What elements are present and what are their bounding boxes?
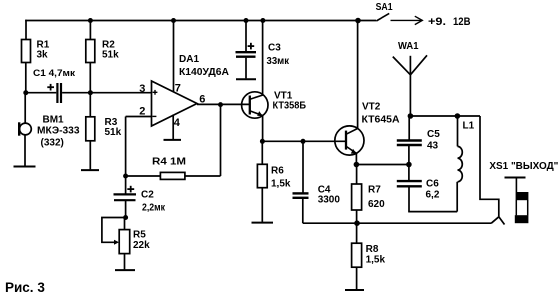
node input left junction (23, 90, 28, 95)
capacitor C4 3300 (293, 141, 341, 223)
wire output to VT1 base (197, 103, 250, 105)
resistor R8 (352, 223, 386, 267)
ground below R6 (252, 222, 274, 224)
wire feedback to output node (220, 104, 222, 176)
resistor R4 1M (126, 157, 221, 180)
svg-text:К140УД6А: К140УД6А (179, 67, 229, 78)
svg-text:Рис. 3: Рис. 3 (5, 280, 45, 294)
transistor VT1 КТ358Б (242, 91, 306, 119)
svg-text:(332): (332) (41, 138, 64, 149)
svg-text:3: 3 (139, 83, 145, 95)
node C4 top junction (301, 139, 306, 144)
node C2 bottom junction (123, 215, 128, 220)
capacitor C1 (26, 68, 91, 103)
node noninverting input junction (88, 90, 93, 95)
wire node to microphone (24, 93, 26, 124)
ground pin 4 (164, 139, 182, 141)
svg-text:4: 4 (174, 117, 181, 129)
wire VT2 collector to rail (357, 21, 359, 129)
svg-text:SA1: SA1 (376, 1, 393, 13)
node rail R2 junction (88, 18, 93, 23)
wire bottom rail (303, 222, 492, 224)
microphone BM1 (19, 114, 80, 148)
svg-text:C3: C3 (268, 43, 281, 54)
svg-text:1,5k: 1,5k (366, 255, 386, 266)
wire left column from rail to R1 (25, 20, 27, 40)
wire supply arrow (391, 16, 471, 28)
connector XS1 ВЫХОД (489, 160, 558, 223)
wire R2 bottom to input node (89, 63, 91, 93)
node output junction (218, 102, 223, 107)
node C5 C6 emitter junction (406, 162, 412, 168)
antenna WA1 (393, 40, 427, 75)
svg-text:620: 620 (368, 199, 385, 210)
svg-text:МКЭ-333: МКЭ-333 (37, 126, 80, 137)
wire R3 to ground (89, 141, 91, 170)
node rail pin7 junction (171, 18, 176, 23)
wire antenna down (409, 75, 411, 116)
svg-text:C6: C6 (426, 179, 439, 190)
ground below R5 (115, 269, 135, 271)
wire R7 to bottom rail (356, 210, 358, 223)
resistor R2 (86, 40, 119, 63)
wire feedback vertical (125, 117, 127, 177)
node VT1 emitter junction (260, 139, 265, 144)
node rail VT1 collector junction (260, 18, 265, 23)
wire pin 7 to rail (173, 21, 175, 92)
svg-text:R7: R7 (368, 185, 381, 196)
svg-text:C2: C2 (141, 190, 154, 201)
capacitor C5 43 (397, 116, 440, 165)
svg-text:51k: 51k (105, 127, 122, 138)
wire R1 bottom to input node (25, 63, 27, 93)
op-amp DA1 К140УД6А (139, 54, 229, 129)
switch SA1 (376, 1, 393, 21)
svg-text:12В: 12В (453, 16, 471, 28)
resistor R6 (257, 141, 291, 189)
transistor VT2 КТ645А (335, 102, 400, 156)
svg-text:КТ358Б: КТ358Б (273, 101, 307, 112)
ground below BM1 (14, 166, 36, 168)
svg-text:R4 1М: R4 1М (152, 157, 186, 168)
svg-text:43: 43 (427, 141, 439, 152)
wire rail to R2 (89, 21, 91, 40)
svg-text:КТ645А: КТ645А (362, 115, 400, 126)
capacitor C3 (236, 21, 290, 79)
wire VT1 collector to rail (262, 21, 264, 96)
wire node to R3 (89, 93, 91, 117)
node feedback junction (123, 174, 128, 179)
svg-text:WA1: WA1 (398, 40, 419, 52)
capacitor C2 (114, 176, 166, 218)
svg-text:1,5k: 1,5k (271, 179, 291, 190)
svg-text:33мк: 33мк (267, 56, 290, 67)
svg-text:DA1: DA1 (179, 54, 199, 65)
svg-text:L1: L1 (463, 121, 475, 132)
svg-text:7: 7 (175, 82, 181, 94)
svg-text:+9.: +9. (428, 16, 446, 28)
node L1 top junction (455, 113, 461, 119)
wire top supply rail (25, 20, 376, 22)
resistor R1 (22, 40, 50, 63)
wire tank top (410, 115, 480, 117)
resistor R7 620 (352, 165, 386, 211)
wire R5 to ground (124, 254, 126, 270)
wire VT2 emitter down (355, 153, 357, 164)
wire pin 4 down (172, 115, 174, 140)
wire R6 to ground (261, 188, 263, 222)
resistor R3 (86, 117, 122, 141)
svg-text:2,2мк: 2,2мк (142, 203, 166, 214)
ground below C3 (236, 78, 256, 80)
wire pin3 input (90, 92, 151, 94)
node VT2 emitter junction (354, 162, 360, 168)
svg-text:51k: 51k (102, 50, 119, 61)
wire microphone to ground (24, 135, 26, 166)
ground below R8 (345, 289, 364, 291)
svg-text:6,2: 6,2 (426, 190, 440, 201)
svg-text:C5: C5 (427, 129, 440, 140)
wire R8 to ground (356, 267, 358, 289)
svg-text:R5: R5 (133, 230, 146, 241)
svg-text:22k: 22k (133, 240, 150, 251)
wire plug arrowhead (491, 217, 499, 223)
svg-text:R8: R8 (366, 244, 379, 255)
wire VT2 emitter to tank (356, 164, 408, 166)
svg-text:С1 4,7мк: С1 4,7мк (33, 68, 75, 79)
wire pin2 input (126, 116, 152, 118)
node antenna junction (408, 113, 414, 119)
svg-text:3300: 3300 (318, 195, 341, 206)
svg-text:3k: 3k (37, 50, 49, 61)
svg-text:VT2: VT2 (362, 102, 381, 113)
svg-text:ВМ1: ВМ1 (43, 114, 65, 125)
wire output coupling to XS1 (480, 116, 499, 217)
wire emitter to VT2 base (262, 140, 346, 142)
ground below R3 (81, 169, 99, 171)
wire VT1 emitter down (262, 116, 264, 142)
inductor L1 (457, 116, 474, 212)
svg-text:R6: R6 (271, 166, 284, 177)
node rail C3 junction (244, 18, 249, 23)
wire tank bottom (408, 211, 457, 213)
svg-text:XS1 "ВЫХОД": XS1 "ВЫХОД" (489, 160, 558, 172)
capacitor C6 6,2 (397, 165, 440, 212)
wire R5 wiper path (102, 218, 126, 243)
node rail VT2 collector junction (355, 18, 361, 24)
node bottom rail R8 junction (354, 220, 360, 226)
resistor R5 22k potentiometer (114, 218, 150, 254)
